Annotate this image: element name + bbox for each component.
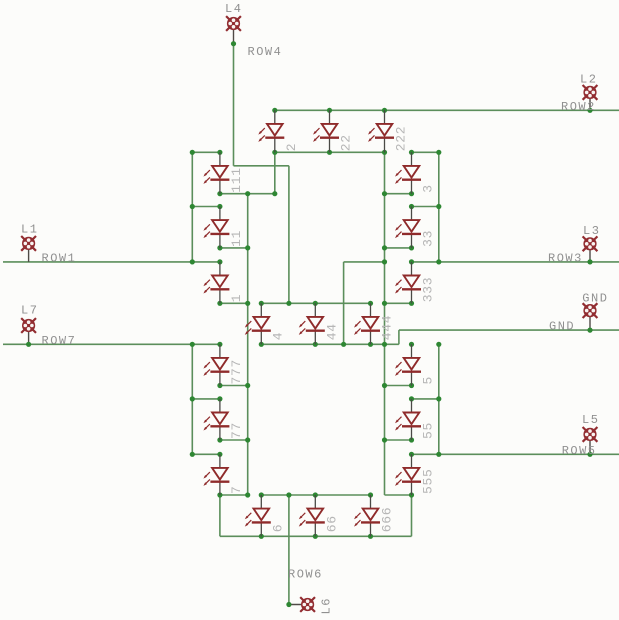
junction D55 cathode <box>409 437 414 442</box>
junction rail-ROW7 bottom <box>190 452 195 457</box>
wire cathode stub D33 <box>385 247 412 249</box>
junction pin GND <box>587 328 592 333</box>
junction ROW7 / rail <box>190 342 195 347</box>
junction bus / GND loop <box>382 259 387 264</box>
LED D222 <box>368 110 394 152</box>
wire ROW4 drop from L4 <box>233 44 235 166</box>
wire net GND corner vertical <box>398 330 400 344</box>
wire ROW7 rail stub bottom-left <box>192 453 220 455</box>
pad L7 <box>21 318 36 344</box>
junction D7 anode <box>217 452 222 457</box>
wire net ROW1 horizontal <box>3 261 220 263</box>
junction ROW3 / rail <box>436 259 441 264</box>
wire ROW5 rail stub mid-right <box>412 398 439 400</box>
junction rail-ROW3 mid <box>436 204 441 209</box>
LED D333 <box>395 262 421 303</box>
junction ROW4 / jog <box>286 301 291 306</box>
LED D7 <box>203 454 229 495</box>
wire ROW1 rail stub mid-left <box>192 206 220 208</box>
junction D222 cathode / bus <box>382 150 387 155</box>
pad L6 <box>289 597 315 612</box>
wire cathode jog D555 <box>385 494 412 496</box>
junction left bus / D11 <box>245 245 250 250</box>
junction D44 cathode <box>313 342 318 347</box>
svg-text:555: 555 <box>421 468 436 494</box>
junction ROW6 / riser <box>286 492 291 497</box>
pad L5 <box>583 427 598 454</box>
junction ROW5 / rail <box>436 452 441 457</box>
junction rail-ROW5 top <box>436 342 441 347</box>
LED D2 <box>258 110 284 152</box>
junction ROW2 / D2 anode <box>272 108 277 113</box>
wire GND loop horizontal <box>344 261 385 263</box>
wire ROW4 jog vertical <box>288 166 290 303</box>
junction D7 cathode <box>217 492 222 497</box>
wire net ROW7 horizontal <box>3 343 220 345</box>
wire GND loop vertical <box>343 262 345 344</box>
svg-text:ROW5: ROW5 <box>562 444 597 458</box>
junction D11 anode <box>217 204 222 209</box>
wire bottom-left cathode drop <box>219 495 221 536</box>
svg-text:7: 7 <box>229 485 244 494</box>
LED D666 <box>354 495 380 536</box>
junction D77 cathode <box>217 437 222 442</box>
junction D33 cathode <box>409 245 414 250</box>
wire left cathode bus vertical <box>247 194 249 495</box>
junction ROW6 / D666 anode <box>368 492 373 497</box>
LED D5 <box>395 344 421 385</box>
LED D44 <box>299 303 325 344</box>
junction GND loop bottom <box>341 342 346 347</box>
junction pin L3 <box>587 259 592 264</box>
junction bus / D5 cathode stub <box>382 383 387 388</box>
wire cathode stub D3 <box>385 193 412 195</box>
wire cathode stub D77 <box>220 439 248 441</box>
svg-text:L3: L3 <box>583 224 600 238</box>
LED D55 <box>395 399 421 440</box>
svg-text:33: 33 <box>421 230 436 247</box>
junction ROW3 / D333 anode <box>409 259 414 264</box>
wire ROW3 rail stub mid-right <box>412 206 439 208</box>
LED D66 <box>299 495 325 536</box>
svg-text:GND: GND <box>582 292 608 306</box>
junction left bus / D777 <box>245 383 250 388</box>
pad L2 <box>583 85 598 110</box>
svg-text:777: 777 <box>229 359 244 385</box>
junction rail-ROW3 top <box>436 150 441 155</box>
junction left bus / D77 <box>245 437 250 442</box>
svg-text:55: 55 <box>421 422 436 439</box>
svg-text:222: 222 <box>394 126 409 152</box>
pad L4 <box>226 16 241 44</box>
wire cathode hub left <box>220 302 248 304</box>
junction rail-ROW1 top <box>190 150 195 155</box>
LED D4 <box>245 303 271 344</box>
junction ROW5 rail top / D5 anode <box>409 342 414 347</box>
junction chain D2 bottom <box>272 191 277 196</box>
wire cathode stub D7 <box>220 494 248 496</box>
LED D22 <box>313 110 339 152</box>
junction rail-ROW1 mid <box>190 204 195 209</box>
junction ROW4 / D4 anode <box>259 301 264 306</box>
LED D777 <box>203 344 229 385</box>
wire net GND horizontal <box>399 329 619 331</box>
junction D111 anode <box>217 150 222 155</box>
wire left rail ROW7 vertical <box>191 344 193 454</box>
wire cathode stub D11 <box>220 247 248 249</box>
junction ROW6 / D6 anode <box>259 492 264 497</box>
junction D555 cathode <box>409 492 414 497</box>
wire ROW1 rail stub top-left <box>192 151 220 153</box>
junction D11 cathode <box>217 245 222 250</box>
wire net ROW3 horizontal <box>412 261 619 263</box>
junction bus / D3 cathode stub <box>382 191 387 196</box>
junction ROW7 / D777 anode <box>217 342 222 347</box>
wire net ROW4 horizontal <box>261 302 370 304</box>
pad GND (ground) <box>583 303 598 330</box>
svg-text:L6: L6 <box>320 597 334 614</box>
LED D6 <box>245 495 271 536</box>
svg-text:66: 66 <box>324 515 339 532</box>
svg-text:L2: L2 <box>580 72 597 86</box>
junction D5 cathode <box>409 383 414 388</box>
junction D22 cathode <box>327 150 332 155</box>
svg-text:GND: GND <box>549 320 575 334</box>
wire net ROW5 horizontal <box>412 453 619 455</box>
junction D1 cathode <box>217 301 222 306</box>
LED D3 <box>395 152 421 193</box>
LED D11 <box>203 207 229 248</box>
wire cathode stub D5 <box>385 385 412 387</box>
wire bottom-right cathode riser <box>411 495 413 536</box>
junction pin L5 <box>587 452 592 457</box>
svg-text:4: 4 <box>270 332 285 341</box>
wire left rail ROW1 vertical <box>191 152 193 262</box>
wire ROW7 rail stub mid-left <box>192 398 220 400</box>
junction right bus / segment-G <box>382 342 387 347</box>
wire cathode hub right <box>385 302 412 304</box>
wire right rail ROW5 vertical <box>438 344 440 454</box>
junction left bus top <box>245 191 250 196</box>
svg-text:3: 3 <box>421 184 436 193</box>
junction pin L2 <box>587 108 592 113</box>
svg-text:111: 111 <box>229 167 244 193</box>
junction D3 anode <box>409 150 414 155</box>
svg-text:ROW3: ROW3 <box>548 251 583 265</box>
junction right bus hub <box>382 301 387 306</box>
junction D66 cathode <box>313 534 318 539</box>
wire ROW3 rail stub top-right <box>412 151 439 153</box>
svg-text:444: 444 <box>380 315 395 341</box>
junction D77 anode <box>217 396 222 401</box>
svg-text:L5: L5 <box>582 413 599 427</box>
junction pin L4 <box>231 41 236 46</box>
wire segment-G cathode bus <box>261 343 399 345</box>
wire right cathode bus vertical <box>384 152 386 495</box>
junction pin L7 <box>26 342 31 347</box>
LED D1 <box>203 262 229 303</box>
junction D666 cathode <box>368 534 373 539</box>
junction rail-ROW5 mid <box>436 396 441 401</box>
svg-text:5: 5 <box>421 376 436 385</box>
junction bus / D33 cathode stub <box>382 245 387 250</box>
svg-text:ROW2: ROW2 <box>561 100 596 114</box>
wire net ROW6 horizontal <box>261 494 370 496</box>
svg-text:6: 6 <box>270 524 285 533</box>
svg-text:ROW6: ROW6 <box>288 568 323 582</box>
junction D333 cathode <box>409 301 414 306</box>
LED D111 <box>203 152 229 193</box>
junction ROW4 / D444 anode <box>368 301 373 306</box>
wire right rail ROW3 vertical <box>438 152 440 262</box>
junction D111 cathode <box>217 191 222 196</box>
junction left bus bottom <box>245 492 250 497</box>
LED D444 <box>354 303 380 344</box>
wire ROW4 jog horizontal <box>234 165 289 167</box>
svg-text:ROW4: ROW4 <box>248 45 283 59</box>
svg-text:L4: L4 <box>225 2 242 16</box>
svg-text:ROW1: ROW1 <box>42 252 77 266</box>
junction ROW5 / D555 anode <box>409 452 414 457</box>
svg-text:333: 333 <box>421 277 436 303</box>
wire net ROW2 horizontal <box>275 109 619 111</box>
junction bus / D55 cathode stub <box>382 437 387 442</box>
wire ROW6 riser vertical <box>288 495 290 605</box>
svg-text:ROW7: ROW7 <box>42 334 77 348</box>
svg-text:L7: L7 <box>21 303 38 317</box>
LED D33 <box>395 207 421 248</box>
LED D555 <box>395 454 421 495</box>
junction D3 cathode <box>409 191 414 196</box>
svg-text:1: 1 <box>229 294 244 303</box>
junction rail-ROW7 mid <box>190 396 195 401</box>
pad L1 <box>21 236 36 262</box>
wire segment-D cathode bus <box>220 535 412 537</box>
junction D777 cathode <box>217 383 222 388</box>
junction pin L6 <box>286 602 291 607</box>
junction ROW2 / D22 anode <box>327 108 332 113</box>
LED D77 <box>203 399 229 440</box>
svg-text:44: 44 <box>324 323 339 340</box>
wire cathode stub D777 <box>220 385 248 387</box>
svg-text:22: 22 <box>339 134 354 151</box>
wire cathode stub D55 <box>385 439 412 441</box>
junction D55 anode <box>409 396 414 401</box>
svg-text:L1: L1 <box>21 223 38 237</box>
wire cathode node D111/D2 <box>220 193 275 195</box>
junction D2 cathode <box>272 150 277 155</box>
wire segment-A cathode bus <box>275 151 385 153</box>
wire cathode chain vertical D2 <box>274 152 276 193</box>
svg-text:11: 11 <box>229 230 244 247</box>
junction D444 cathode <box>368 342 373 347</box>
junction ROW6 / D66 anode <box>313 492 318 497</box>
pad L3 <box>583 236 598 262</box>
junction left bus hub <box>245 301 250 306</box>
junction ROW2 / D222 anode <box>382 108 387 113</box>
junction ROW4 / D44 anode <box>313 301 318 306</box>
junction D4 cathode <box>259 342 264 347</box>
junction ROW1 / rail <box>190 259 195 264</box>
svg-text:2: 2 <box>284 143 299 152</box>
junction D33 anode <box>409 204 414 209</box>
svg-text:77: 77 <box>229 422 244 439</box>
junction D6 cathode <box>259 534 264 539</box>
junction ROW1 / D1 anode <box>217 259 222 264</box>
svg-text:666: 666 <box>380 507 395 533</box>
